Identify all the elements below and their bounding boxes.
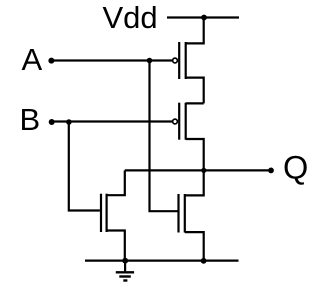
- svg-text:Q: Q: [283, 149, 308, 185]
- svg-text:A: A: [22, 42, 43, 77]
- svg-text:B: B: [20, 102, 41, 137]
- svg-text:Vdd: Vdd: [103, 0, 158, 35]
